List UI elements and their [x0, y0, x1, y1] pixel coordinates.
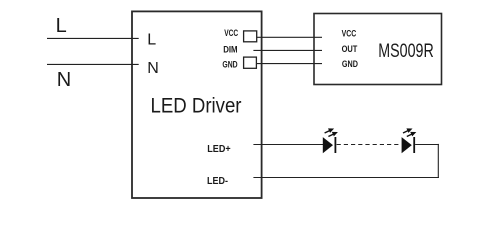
- svg-text:LED+: LED+: [207, 143, 231, 155]
- LED D2 emission arrow 1: [403, 129, 411, 133]
- LED D1 cathode bar: [334, 137, 336, 153]
- LED D2 anode triangle: [402, 137, 412, 153]
- svg-text:LED Driver: LED Driver: [151, 94, 242, 118]
- LED D1 anode triangle: [323, 137, 333, 153]
- terminal square VCC: [244, 31, 257, 42]
- svg-text:GND: GND: [342, 59, 358, 69]
- svg-text:N: N: [147, 60, 159, 77]
- wire return vertical: [437, 144, 439, 178]
- svg-text:LED-: LED-: [207, 176, 228, 188]
- svg-text:VCC: VCC: [224, 28, 238, 38]
- wire dashed LED string: [337, 144, 402, 146]
- svg-text:L: L: [56, 15, 67, 37]
- LED Driver box U1: [132, 11, 262, 198]
- LED D2 cathode bar: [413, 137, 415, 153]
- wire N input: [47, 63, 139, 65]
- terminal square GND: [244, 57, 257, 68]
- MS009R box U2: [314, 14, 442, 85]
- wire VCC to MS009R: [257, 36, 322, 38]
- svg-text:GND: GND: [222, 59, 237, 69]
- LED D1 emission arrow 1: [325, 129, 333, 133]
- svg-text:N: N: [57, 69, 71, 91]
- LED D2 emission arrow 2: [407, 132, 415, 136]
- wire LED+: [253, 144, 323, 146]
- wire GND to GND: [256, 63, 322, 65]
- svg-text:OUT: OUT: [342, 44, 358, 54]
- svg-text:DIM: DIM: [223, 44, 237, 55]
- svg-text:MS009R: MS009R: [378, 39, 433, 62]
- svg-text:L: L: [147, 32, 156, 49]
- LED D1 emission arrow 2: [328, 132, 336, 136]
- svg-text:VCC: VCC: [342, 29, 357, 39]
- wire LED- return: [253, 177, 439, 179]
- wire DIM to OUT: [253, 49, 322, 51]
- wire LED2 cathode to right: [415, 144, 439, 146]
- wire L input: [47, 37, 139, 39]
